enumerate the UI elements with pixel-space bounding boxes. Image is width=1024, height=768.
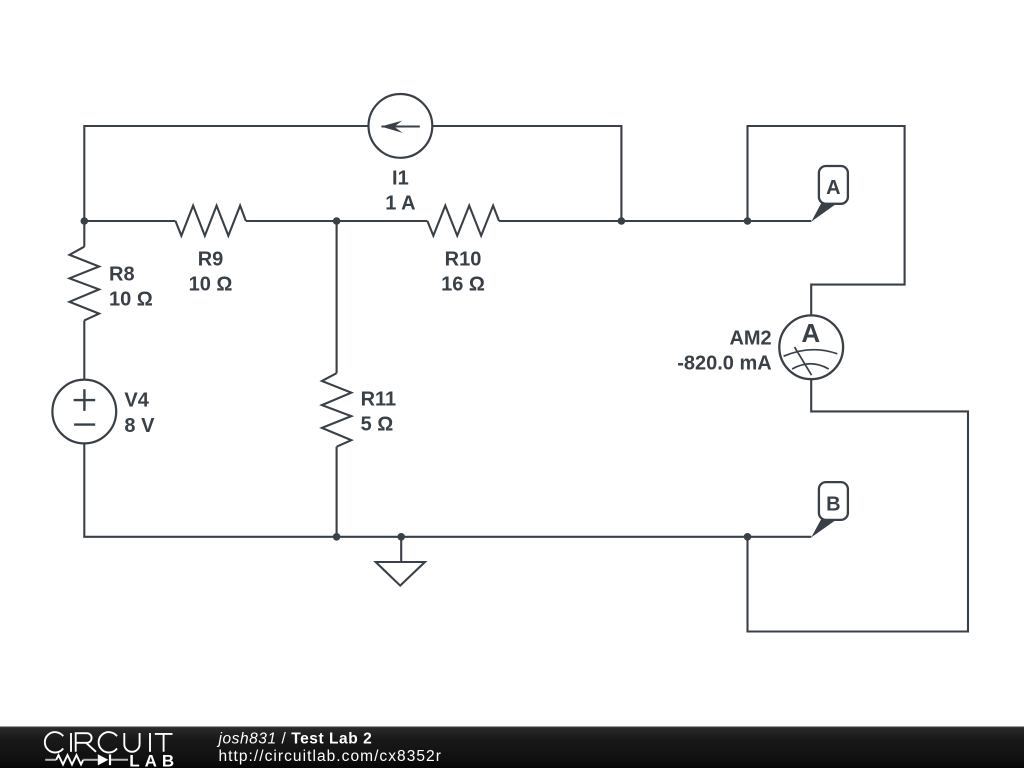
current source I1 arrowhead — [381, 121, 403, 133]
ground symbol triangle — [376, 562, 425, 586]
wire: R10 to terminal A stub — [499, 220, 811, 222]
CircuitLab logo letter C2 — [99, 732, 117, 752]
footer top edge highlight — [0, 727, 1024, 728]
wire top-left: left vertical riser and top rail to I1 — [84, 126, 368, 221]
resistor R9 zigzag — [176, 206, 246, 236]
resistor R8 zigzag — [70, 247, 100, 321]
terminal B pointer wedge — [811, 519, 836, 537]
V4 plus sign — [74, 389, 96, 411]
svg-text:R11: R11 — [361, 389, 397, 411]
resistor R11 zigzag — [322, 373, 351, 447]
svg-text:1 A: 1 A — [385, 193, 415, 215]
svg-text:I1: I1 — [392, 168, 409, 190]
wire: R9 to R10 — [246, 220, 428, 222]
V4 minus sign — [74, 423, 95, 425]
svg-text:-820.0 mA: -820.0 mA — [677, 352, 772, 374]
logo wire middle — [83, 759, 98, 761]
voltage source V4 circle — [52, 380, 116, 444]
logo diode cathode bar — [109, 754, 111, 765]
ammeter AM2 scale arc upper — [784, 350, 838, 357]
svg-text:R8: R8 — [109, 263, 135, 285]
CircuitLab logo letter I — [70, 733, 72, 752]
CircuitLab logo letter T — [155, 734, 173, 752]
wire: I1 right along top rail, down to main row — [432, 126, 621, 221]
ground stub — [400, 537, 402, 562]
terminal B box — [819, 482, 848, 520]
terminal A pointer wedge — [811, 203, 836, 221]
junction node: left rail / R8 — [81, 217, 89, 225]
logo wire right — [111, 759, 128, 761]
logo diode triangle — [98, 754, 109, 765]
svg-text:V4: V4 — [124, 390, 149, 412]
wire: ammeter bottom loop to bottom rail node — [748, 379, 969, 631]
wire: R11 bottom stub — [336, 447, 338, 537]
logo resistor zigzag — [56, 755, 83, 764]
svg-text:10 Ω: 10 Ω — [189, 274, 233, 296]
current source I1 arrow shaft — [382, 125, 420, 127]
svg-text:A: A — [801, 318, 820, 348]
logo resistor wire left — [45, 759, 56, 761]
junction node: R11 top — [333, 217, 341, 225]
terminal A box — [819, 166, 848, 204]
svg-text:LAB: LAB — [129, 752, 179, 768]
current source I1 circle — [369, 94, 433, 158]
CircuitLab logo letter R — [76, 733, 96, 752]
footer bar — [0, 727, 1024, 768]
ammeter AM2 scale arc lower — [792, 364, 829, 369]
resistor R10 zigzag — [427, 206, 499, 236]
junction node: ground — [397, 533, 405, 541]
svg-text:8 V: 8 V — [124, 415, 155, 437]
junction node: ammeter loop bottom — [744, 533, 752, 541]
ammeter AM2 circle — [779, 315, 843, 379]
wire: R11 top stub — [336, 221, 338, 373]
svg-text:AM2: AM2 — [729, 327, 771, 349]
svg-text:10 Ω: 10 Ω — [109, 288, 153, 310]
junction node: top rail drop — [618, 217, 626, 225]
svg-text:16 Ω: 16 Ω — [441, 274, 485, 296]
CircuitLab logo letter U — [124, 733, 139, 752]
svg-text:R9: R9 — [198, 249, 224, 271]
wire: V4 down and bottom rail — [84, 443, 811, 536]
CircuitLab logo letter I2 — [149, 733, 151, 752]
junction node: ammeter loop top — [744, 217, 752, 225]
wire: R8 top stub — [83, 221, 85, 247]
wire: main row from left node to R9 — [84, 220, 175, 222]
wire: R8 to V4 — [83, 320, 85, 379]
svg-text:R10: R10 — [445, 249, 482, 271]
CircuitLab logo letter C — [45, 732, 63, 752]
svg-text:B: B — [826, 493, 840, 515]
junction node: R11 bottom — [333, 533, 341, 541]
ammeter AM2 needle — [795, 347, 812, 375]
wire: node to ammeter loop (up over the top right) — [748, 126, 905, 315]
svg-text:A: A — [826, 177, 840, 199]
svg-text:5 Ω: 5 Ω — [361, 414, 394, 436]
svg-text:http://circuitlab.com/cx8352r: http://circuitlab.com/cx8352r — [219, 748, 442, 765]
svg-text:josh831 / Test Lab 2: josh831 / Test Lab 2 — [217, 731, 373, 748]
